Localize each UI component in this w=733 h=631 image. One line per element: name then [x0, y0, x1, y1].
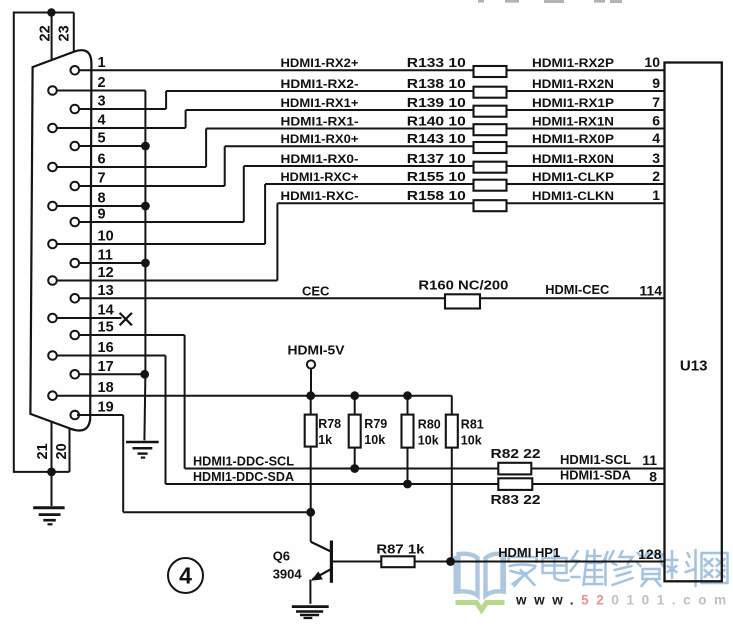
junction shield top: [47, 8, 55, 16]
svg-text:R138 10: R138 10: [407, 77, 466, 91]
svg-text:4: 4: [179, 563, 192, 589]
svg-text:Q6: Q6: [273, 549, 290, 564]
pin 7 contact: [71, 182, 80, 191]
junction HPD node: [306, 508, 315, 517]
resistor R143: [474, 142, 507, 153]
svg-text:R83 22: R83 22: [491, 492, 541, 507]
svg-text:4: 4: [98, 113, 106, 129]
svg-text:HDMI1-SDA: HDMI1-SDA: [560, 468, 632, 483]
wire R87 to HP1 node: [415, 561, 451, 563]
wire pin10 HDMI1-RXC+: [57, 243, 265, 245]
svg-text:HDMI1-RX2-: HDMI1-RX2-: [281, 77, 359, 91]
ground symbol Q6 emitter: [292, 605, 329, 608]
wire pin19 HPD: [77, 414, 123, 416]
svg-text:14: 14: [98, 303, 114, 319]
wire pin8 shield to ground bus: [57, 205, 146, 207]
junction R79 bottom SCL: [350, 464, 359, 473]
resistor R79: [354, 396, 356, 415]
resistor R81: [451, 396, 453, 415]
wire row4 to U13: [507, 128, 665, 130]
svg-text:12: 12: [98, 265, 114, 281]
wire SCL to U13: [531, 468, 664, 470]
svg-text:HDMI1-RX2N: HDMI1-RX2N: [532, 77, 614, 91]
svg-text:HDMI HP1: HDMI HP1: [498, 545, 560, 560]
svg-text:17: 17: [98, 359, 114, 375]
resistor R80: [407, 396, 409, 415]
svg-text:19: 19: [98, 400, 114, 416]
svg-text:10k: 10k: [461, 434, 482, 448]
svg-text:CEC: CEC: [302, 283, 330, 298]
svg-text:23: 23: [57, 25, 73, 41]
svg-text:R81: R81: [461, 418, 484, 432]
junction R80 top: [403, 391, 412, 400]
svg-text:R133 10: R133 10: [407, 56, 466, 70]
wire row3 to U13: [507, 109, 665, 111]
wire pin12 HDMI1-RXC-: [57, 280, 278, 282]
pin 3 contact: [71, 105, 80, 114]
svg-text:8: 8: [649, 469, 657, 485]
no-connect X pin14: [120, 313, 132, 325]
pin 11 contact: [71, 259, 80, 268]
wire pin17 to ground bus: [79, 373, 144, 375]
pin 10 contact: [48, 240, 57, 249]
wire connector shield frame: [14, 13, 74, 472]
svg-text:HDMI-CEC: HDMI-CEC: [545, 282, 610, 297]
wire pin18 +5V rail: [57, 395, 452, 397]
svg-text:HDMI1-RX1N: HDMI1-RX1N: [532, 114, 614, 128]
junction pin5 shield: [141, 142, 150, 151]
pin 14 contact: [48, 314, 57, 323]
wire pin 21 lead: [51, 422, 53, 472]
wire pin7 HDMI1-RX0+: [79, 185, 225, 187]
svg-text:22: 22: [38, 25, 54, 41]
svg-text:6: 6: [98, 152, 106, 168]
pin 1 contact: [71, 66, 80, 75]
svg-text:R87 1k: R87 1k: [376, 541, 425, 556]
wire pin 23 lead: [73, 13, 75, 53]
svg-text:HDMI1-DDC-SDA: HDMI1-DDC-SDA: [193, 469, 295, 484]
wire HDMI-5V to rail: [310, 369, 312, 396]
svg-text:6: 6: [652, 112, 660, 128]
pin 18 contact: [48, 391, 57, 400]
svg-text:2: 2: [98, 75, 106, 91]
ground symbol shell: [33, 506, 64, 509]
junction pin11 shield: [141, 259, 150, 268]
svg-text:16: 16: [98, 340, 114, 356]
transistor Q6: [310, 512, 312, 542]
watermark logo open-book icon: [455, 554, 505, 596]
svg-text:R137 10: R137 10: [407, 152, 466, 166]
svg-text:10k: 10k: [364, 433, 385, 447]
watermark logo green swoosh: [456, 603, 505, 611]
node HDMI-5V terminal: [307, 360, 315, 368]
svg-text:R143 10: R143 10: [407, 132, 466, 146]
svg-text:10: 10: [644, 54, 660, 70]
svg-text:7: 7: [652, 94, 660, 110]
pin 5 contact: [71, 142, 80, 151]
resistor R139: [474, 106, 507, 117]
pin 16 contact: [48, 351, 57, 360]
wire Q6 base to R87: [333, 561, 381, 563]
wire pin 20 lead: [69, 429, 71, 472]
svg-text:13: 13: [98, 283, 114, 299]
svg-text:HDMI1-RX0+: HDMI1-RX0+: [281, 132, 359, 146]
wire pin2 shield to ground bus: [57, 90, 146, 92]
svg-text:9: 9: [98, 207, 106, 223]
svg-text:HDMI1-RX2+: HDMI1-RX2+: [281, 56, 359, 70]
wire shell ground stem: [51, 472, 53, 506]
resistor R133: [474, 66, 507, 77]
wire pin13 CEC line: [79, 297, 445, 299]
svg-text:U13: U13: [680, 358, 708, 375]
watermark text 家电维修资料网: [509, 550, 728, 586]
svg-text:HDMI1-CLKP: HDMI1-CLKP: [532, 170, 614, 184]
resistor R137: [474, 162, 507, 173]
svg-text:11: 11: [642, 452, 657, 468]
wire pin3 HDMI1-RX2-: [79, 108, 166, 110]
svg-text:HDMI1-RX2P: HDMI1-RX2P: [532, 56, 614, 70]
svg-text:www.520101.com: www.520101.com: [515, 593, 733, 608]
svg-text:HDMI1-DDC-SCL: HDMI1-DDC-SCL: [193, 453, 294, 468]
svg-text:HDMI1-CLKN: HDMI1-CLKN: [532, 189, 614, 203]
svg-text:3904: 3904: [273, 566, 303, 581]
resistor R140: [474, 124, 507, 135]
wire row8 to U13: [507, 202, 665, 204]
connector J1 HDMI shell: [30, 50, 91, 430]
resistor R160: [445, 294, 480, 308]
svg-text:R155 10: R155 10: [407, 170, 466, 184]
pin 19 contact: [71, 411, 80, 420]
junction R78 top: [306, 391, 315, 400]
junction R79 top: [350, 391, 359, 400]
svg-text:18: 18: [98, 380, 114, 396]
svg-text:R139 10: R139 10: [407, 96, 466, 110]
pin 8 contact: [48, 202, 57, 211]
wire pin16 DDC-SDA: [57, 355, 166, 357]
svg-text:HDMI1-RX1P: HDMI1-RX1P: [532, 96, 614, 110]
svg-text:R82 22: R82 22: [491, 446, 541, 461]
svg-text:HDMI1-SCL: HDMI1-SCL: [560, 452, 631, 467]
decorative: none: [478, 0, 622, 3]
svg-text:HDMI1-RXC+: HDMI1-RXC+: [281, 170, 359, 184]
wire pin11 shield to ground bus: [79, 262, 145, 264]
svg-text:HDMI1-RX0N: HDMI1-RX0N: [532, 152, 614, 166]
wire pin14 no-connect: [57, 317, 122, 319]
svg-text:10k: 10k: [418, 434, 439, 448]
junction R81 bottom HP1: [446, 557, 455, 566]
svg-text:4: 4: [652, 130, 660, 146]
pin 2 contact: [48, 86, 57, 95]
svg-text:R80: R80: [418, 418, 441, 432]
wire pin15 DDC-SCL: [79, 334, 185, 336]
pin 4 contact: [48, 124, 57, 133]
svg-text:1k: 1k: [318, 433, 332, 447]
pin 6 contact: [48, 163, 57, 172]
svg-text:HDMI1-RXC-: HDMI1-RXC-: [281, 189, 359, 203]
svg-text:9: 9: [652, 75, 660, 91]
svg-text:R140 10: R140 10: [407, 114, 466, 128]
resistor R158: [474, 200, 507, 211]
resistor R138: [474, 87, 507, 98]
svg-text:5: 5: [98, 131, 106, 147]
ground bus wire: [144, 91, 146, 375]
pin 13 contact: [71, 294, 80, 303]
wire pin1 HDMI1-RX2+: [79, 69, 473, 71]
wire SDA to U13: [532, 483, 664, 485]
wire pin4 HDMI1-RX1+: [57, 127, 186, 129]
resistor R83: [498, 478, 532, 490]
wire HDMI HP1 to U13: [451, 561, 665, 563]
junction shell ground: [47, 468, 56, 477]
ground symbol bus: [126, 441, 159, 444]
op-amp U13 (IC block): [665, 63, 722, 582]
svg-text:HDMI1-RX1+: HDMI1-RX1+: [281, 96, 359, 110]
wire DDC-SDA row: [166, 483, 499, 485]
wire pin6 HDMI1-RX1-: [57, 166, 206, 168]
resistor R87: [381, 556, 414, 567]
resistor R78: [310, 396, 312, 415]
svg-text:11: 11: [98, 248, 113, 264]
wire row2 to U13: [507, 90, 665, 92]
svg-text:10: 10: [98, 229, 114, 245]
svg-text:1: 1: [652, 187, 660, 203]
wire row1 to U13: [507, 69, 665, 71]
pin 17 contact: [71, 370, 80, 379]
resistor R155: [474, 180, 507, 191]
svg-text:HDMI1-RX0P: HDMI1-RX0P: [532, 132, 614, 146]
wire row5 to U13: [507, 145, 665, 147]
wire row7 to U13: [507, 183, 665, 185]
svg-text:7: 7: [98, 171, 106, 187]
wire pin9 HDMI1-RX0-: [79, 221, 244, 223]
svg-text:3: 3: [98, 94, 106, 110]
svg-text:R79: R79: [364, 417, 387, 431]
svg-text:R160 NC/200: R160 NC/200: [418, 278, 508, 293]
svg-text:1: 1: [98, 55, 106, 71]
junction pin17 ground: [140, 370, 149, 379]
svg-text:21: 21: [35, 443, 51, 459]
svg-text:R158 10: R158 10: [407, 189, 466, 203]
pin 15 contact: [71, 331, 80, 340]
junction R80 bottom SDA: [403, 480, 412, 489]
svg-text:8: 8: [98, 191, 106, 207]
junction pin8 shield: [141, 202, 150, 211]
svg-text:128: 128: [638, 546, 662, 562]
svg-text:R78: R78: [318, 417, 341, 431]
resistor R82: [498, 463, 531, 475]
figure number 4 circled: [168, 558, 203, 593]
wire DDC-SCL row: [185, 468, 499, 470]
svg-text:3: 3: [652, 150, 660, 166]
pin 12 contact: [48, 276, 57, 285]
wire CEC to U13: [480, 297, 665, 299]
wire pin5 shield to ground bus: [79, 145, 145, 147]
svg-text:114: 114: [639, 283, 662, 299]
svg-text:2: 2: [652, 168, 660, 184]
pin 9 contact: [71, 218, 80, 227]
svg-text:20: 20: [54, 443, 70, 459]
svg-text:HDMI1-RX1-: HDMI1-RX1-: [281, 114, 359, 128]
wire row6 to U13: [507, 165, 665, 167]
svg-text:15: 15: [98, 320, 114, 336]
svg-text:HDMI-5V: HDMI-5V: [288, 343, 345, 358]
svg-text:HDMI1-RX0-: HDMI1-RX0-: [281, 152, 359, 166]
wire pin 22 lead: [51, 13, 53, 61]
